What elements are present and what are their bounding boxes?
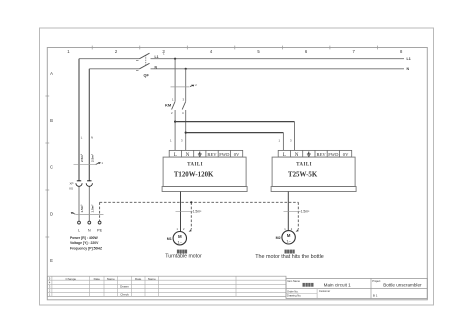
- svg-text:TAILI: TAILI: [187, 162, 203, 167]
- svg-text:N: N: [91, 136, 93, 140]
- svg-text:Drawing No.: Drawing No.: [287, 294, 302, 298]
- svg-text:D: D: [50, 211, 53, 216]
- svg-text:Name: Name: [148, 277, 156, 281]
- svg-text:1: 1: [177, 227, 179, 231]
- svg-text:Order No.: Order No.: [287, 289, 299, 293]
- svg-text:Main circuit 1: Main circuit 1: [324, 282, 352, 287]
- svg-text:1~: 1~: [286, 238, 291, 243]
- svg-text:7: 7: [353, 49, 356, 54]
- svg-text:L1: L1: [155, 55, 159, 59]
- svg-text:XP: XP: [70, 182, 74, 186]
- svg-text:T120W-120K: T120W-120K: [174, 172, 214, 179]
- svg-text:Turntable motor: Turntable motor: [165, 254, 202, 260]
- svg-text:E: E: [50, 258, 53, 263]
- svg-text:4: 4: [182, 111, 184, 115]
- svg-text:Power [R] : 400W: Power [R] : 400W: [70, 236, 98, 240]
- svg-text:Bottle unscrambler: Bottle unscrambler: [383, 282, 422, 287]
- svg-text:0V: 0V: [234, 152, 240, 157]
- svg-text:4: 4: [210, 49, 213, 54]
- svg-text:N: N: [88, 229, 91, 233]
- svg-text:B 1: B 1: [373, 293, 378, 297]
- svg-text:2: 2: [115, 49, 118, 54]
- svg-text:2: 2: [195, 83, 197, 87]
- svg-text:2: 2: [171, 111, 173, 115]
- svg-text:QF: QF: [144, 74, 150, 78]
- svg-text:1~: 1~: [178, 239, 183, 244]
- svg-text:B: B: [50, 118, 53, 123]
- svg-text:8: 8: [400, 49, 403, 54]
- svg-text:Item Name: Item Name: [287, 279, 300, 283]
- svg-text:1.5m²: 1.5m²: [80, 205, 84, 213]
- svg-text:The motor that hits the bottle: The motor that hits the bottle: [255, 254, 324, 260]
- svg-text:2.5m²: 2.5m²: [80, 154, 84, 162]
- svg-text:3: 3: [290, 139, 292, 143]
- svg-text:1: 1: [170, 139, 172, 143]
- svg-text:XS: XS: [69, 187, 73, 191]
- svg-text:L1: L1: [407, 57, 411, 61]
- svg-text:1.5m²: 1.5m²: [91, 205, 95, 213]
- svg-text:Frequency [P]:50HZ: Frequency [P]:50HZ: [70, 246, 102, 250]
- svg-text:T25W-5K: T25W-5K: [288, 172, 318, 179]
- svg-text:Date: Date: [135, 277, 142, 281]
- svg-text:6: 6: [305, 49, 308, 54]
- svg-text:N: N: [407, 67, 410, 71]
- svg-text:M: M: [178, 234, 182, 239]
- svg-text:1.5m²: 1.5m²: [193, 210, 203, 214]
- svg-text:FWD: FWD: [219, 152, 230, 157]
- svg-text:2: 2: [49, 289, 51, 293]
- svg-text:TAILI: TAILI: [296, 162, 312, 167]
- svg-text:3: 3: [183, 98, 185, 102]
- svg-text:M: M: [287, 233, 291, 238]
- svg-text:3: 3: [181, 139, 183, 143]
- svg-text:FWD: FWD: [328, 152, 339, 157]
- svg-text:Change: Change: [66, 277, 77, 281]
- svg-text:5: 5: [49, 277, 51, 281]
- svg-text:L: L: [81, 136, 83, 140]
- svg-text:1: 1: [172, 98, 174, 102]
- svg-text:1: 1: [102, 161, 104, 165]
- svg-text:1: 1: [279, 139, 281, 143]
- svg-text:REV: REV: [317, 152, 327, 157]
- svg-text:L: L: [78, 229, 80, 233]
- svg-text:1: 1: [163, 52, 165, 56]
- svg-text:4: 4: [49, 281, 51, 285]
- svg-text:5: 5: [257, 49, 260, 54]
- svg-text:M1: M1: [167, 237, 172, 241]
- svg-text:Check: Check: [120, 293, 129, 297]
- svg-text:Project: Project: [372, 279, 380, 283]
- svg-text:Date: Date: [94, 277, 101, 281]
- svg-text:KM: KM: [165, 103, 172, 108]
- svg-text:1.5m²: 1.5m²: [301, 210, 311, 214]
- svg-text:1: 1: [67, 49, 70, 54]
- svg-text:M2: M2: [276, 236, 281, 240]
- svg-text:REV: REV: [207, 152, 217, 157]
- svg-text:PE: PE: [97, 229, 103, 233]
- svg-text:A: A: [50, 71, 53, 76]
- svg-text:0V: 0V: [343, 152, 349, 157]
- svg-text:2: 2: [291, 227, 293, 231]
- svg-text:C: C: [50, 165, 53, 170]
- svg-text:Voltage [Y] : 220V: Voltage [Y] : 220V: [70, 241, 99, 245]
- svg-text:1: 1: [284, 227, 286, 231]
- svg-text:Drawn: Drawn: [120, 284, 129, 288]
- svg-text:Name: Name: [107, 277, 115, 281]
- svg-text:2: 2: [183, 227, 185, 231]
- svg-text:2.5m²: 2.5m²: [90, 154, 94, 162]
- svg-text:Customer: Customer: [319, 289, 330, 293]
